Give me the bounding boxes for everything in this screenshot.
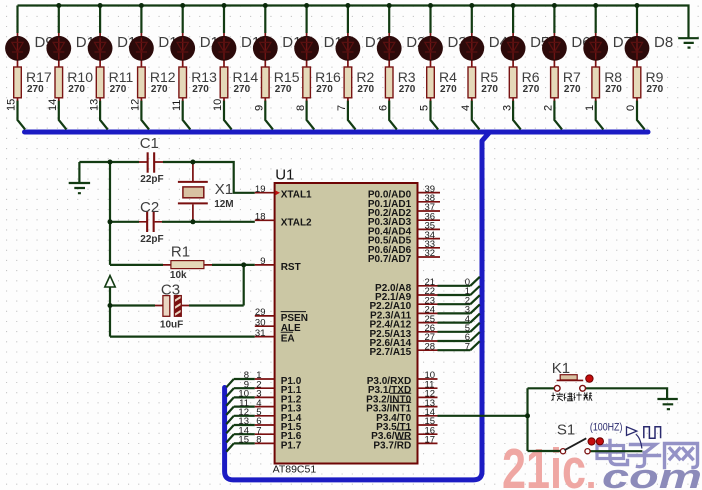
svg-text:RST: RST (281, 262, 301, 273)
svg-text:10: 10 (212, 99, 224, 111)
svg-text:P0.7/AD7: P0.7/AD7 (368, 254, 412, 265)
svg-text:31: 31 (255, 328, 266, 339)
svg-text:270: 270 (440, 84, 457, 95)
svg-text:3: 3 (501, 105, 513, 111)
svg-text:XTAL2: XTAL2 (281, 217, 312, 228)
svg-text:15: 15 (6, 99, 18, 111)
svg-text:8: 8 (295, 105, 307, 111)
svg-text:R6: R6 (522, 69, 540, 85)
svg-text:R16: R16 (315, 69, 341, 85)
svg-text:270: 270 (605, 84, 622, 95)
svg-text:270: 270 (647, 84, 664, 95)
svg-text:R7: R7 (563, 69, 581, 85)
svg-text:6: 6 (377, 105, 389, 111)
svg-text:22pF: 22pF (140, 174, 163, 185)
svg-text:S1: S1 (557, 422, 575, 439)
svg-text:ALE: ALE (281, 323, 301, 334)
svg-text:P3.7/RD: P3.7/RD (373, 440, 411, 451)
svg-text:R9: R9 (646, 69, 664, 85)
svg-text:32: 32 (425, 248, 436, 259)
svg-text:10uF: 10uF (160, 320, 183, 331)
svg-text:R2: R2 (356, 69, 374, 85)
svg-text:270: 270 (68, 84, 85, 95)
svg-text:AT89C51: AT89C51 (273, 464, 317, 476)
svg-text:C1: C1 (140, 135, 159, 152)
svg-text:R14: R14 (233, 69, 259, 85)
svg-text:2: 2 (543, 105, 555, 111)
svg-text:270: 270 (275, 84, 292, 95)
svg-text:P1.7: P1.7 (281, 440, 302, 451)
svg-text:D8: D8 (654, 34, 673, 51)
svg-text:1: 1 (584, 105, 596, 111)
svg-text:15: 15 (238, 435, 249, 446)
svg-text:17: 17 (425, 435, 436, 446)
svg-text:X1: X1 (215, 181, 233, 198)
svg-text:5: 5 (419, 105, 431, 111)
svg-text:9: 9 (254, 105, 266, 111)
svg-text:22pF: 22pF (140, 234, 163, 245)
svg-text:13: 13 (88, 99, 100, 111)
svg-text:270: 270 (523, 84, 540, 95)
svg-text:11: 11 (171, 100, 183, 111)
svg-text:270: 270 (357, 84, 374, 95)
svg-text:R13: R13 (191, 69, 217, 85)
svg-text:R12: R12 (150, 69, 176, 85)
svg-text:10k: 10k (170, 270, 187, 281)
svg-text:.: . (585, 453, 596, 490)
svg-text:9: 9 (260, 256, 265, 267)
svg-text:270: 270 (110, 84, 127, 95)
svg-text:270: 270 (564, 84, 581, 95)
svg-text:4: 4 (460, 105, 472, 111)
svg-text:R3: R3 (398, 69, 416, 85)
svg-text:R4: R4 (439, 69, 457, 85)
svg-text:12: 12 (130, 99, 142, 111)
svg-text:EA: EA (281, 334, 295, 345)
svg-text:270: 270 (316, 84, 333, 95)
svg-text:C3: C3 (161, 282, 180, 299)
svg-text:P2.7/A15: P2.7/A15 (369, 347, 411, 358)
svg-text:(100HZ): (100HZ) (590, 422, 623, 434)
svg-text:18: 18 (255, 212, 266, 223)
svg-text:270: 270 (151, 84, 168, 95)
svg-text:28: 28 (425, 341, 436, 352)
svg-text:U1: U1 (275, 167, 294, 184)
svg-text:270: 270 (399, 84, 416, 95)
svg-text:R10: R10 (67, 69, 93, 85)
svg-text:XTAL1: XTAL1 (281, 190, 312, 201)
svg-text:R17: R17 (26, 69, 52, 85)
svg-text:270: 270 (481, 84, 498, 95)
svg-text:R11: R11 (109, 69, 134, 85)
svg-text:30: 30 (255, 317, 266, 328)
svg-text:7: 7 (336, 105, 348, 111)
svg-text:270: 270 (27, 84, 44, 95)
svg-text:R5: R5 (480, 69, 498, 85)
svg-text:K1: K1 (552, 360, 570, 377)
svg-text:0: 0 (625, 105, 637, 111)
svg-text:R15: R15 (274, 69, 300, 85)
svg-text:R8: R8 (604, 69, 622, 85)
svg-text:270: 270 (192, 84, 209, 95)
svg-text:19: 19 (255, 184, 266, 195)
svg-text:7: 7 (465, 341, 470, 352)
svg-text:270: 270 (234, 84, 251, 95)
svg-text:8: 8 (256, 435, 261, 446)
svg-text:C2: C2 (140, 199, 159, 216)
svg-text:R1: R1 (171, 244, 190, 261)
svg-text:14: 14 (47, 99, 59, 111)
svg-text:12M: 12M (214, 199, 233, 210)
